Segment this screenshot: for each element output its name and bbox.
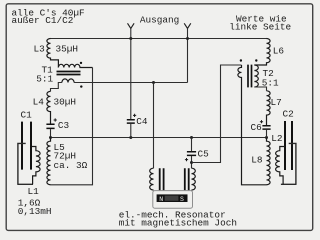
svg-text:mit magnetischem Joch: mit magnetischem Joch <box>119 218 237 229</box>
C4 polarity plus <box>133 114 136 117</box>
node junction right arrow <box>186 37 189 40</box>
svg-text:C6: C6 <box>251 122 263 133</box>
svg-text:L1: L1 <box>28 186 40 197</box>
transformer T1 primary winding <box>58 64 92 67</box>
capacitor C2 plates <box>285 121 292 170</box>
svg-text:L3: L3 <box>34 43 46 54</box>
svg-text:C4: C4 <box>136 116 148 127</box>
C3 polarity plus <box>54 118 57 121</box>
svg-text:5:1: 5:1 <box>36 74 53 85</box>
transducer L2 yoke outline <box>281 143 297 184</box>
inductor L7 <box>267 91 271 126</box>
capacitor C6 <box>262 126 270 129</box>
wire C5 bottom to T2 left winding <box>192 65 242 163</box>
transformer T2 core <box>248 65 252 88</box>
svg-text:0,13mH: 0,13mH <box>18 206 52 217</box>
output terminal arrow left <box>128 23 135 28</box>
svg-text:linke Seite: linke Seite <box>229 22 291 33</box>
wire arrow right down to T1 bus <box>187 28 189 82</box>
wire T1 secondary bus to right arrow <box>74 82 187 84</box>
output terminal arrow right <box>184 23 191 28</box>
svg-text:L7: L7 <box>271 97 282 108</box>
node junction on T1 bus <box>152 81 155 84</box>
node junction C5 top <box>190 136 193 139</box>
svg-text:L6: L6 <box>273 45 285 56</box>
inductor L5 <box>47 138 51 185</box>
svg-text:L8: L8 <box>251 154 263 165</box>
transformer T1 core <box>57 72 81 75</box>
inductor L6 <box>254 39 270 66</box>
transducer L1 coil <box>32 147 40 185</box>
transformer T2 right winding <box>254 65 258 87</box>
transducer L1 yoke outline <box>17 143 33 184</box>
resonator left core <box>160 168 164 190</box>
node junction C6 bottom <box>265 136 268 139</box>
capacitor C3 <box>46 124 54 128</box>
inductor L8 <box>267 138 271 185</box>
capacitor C5 <box>187 152 196 156</box>
transducer L2 coil <box>276 147 285 185</box>
svg-text:C3: C3 <box>58 120 70 131</box>
svg-text:S: S <box>180 196 184 203</box>
node junction C3/L5 <box>49 136 52 139</box>
note: el.-mech. Resonator mit magnetischem Joch <box>119 209 237 228</box>
svg-text:außer C1/C2: außer C1/C2 <box>12 15 74 26</box>
transformer T1 secondary winding <box>62 79 74 83</box>
transformer T2 left winding <box>238 65 267 185</box>
svg-text:C2: C2 <box>283 108 294 119</box>
capacitor C4 <box>127 120 135 123</box>
svg-text:ca. 3Ω: ca. 3Ω <box>54 160 88 171</box>
node junction C4 bottom <box>129 136 132 139</box>
C6 polarity plus <box>260 120 263 123</box>
wire T1 primary right lead down and along bottom to L5 <box>51 68 93 185</box>
T1 phase dot top <box>80 62 82 64</box>
wire mid bus <box>51 137 267 139</box>
resonator right coil <box>192 168 196 190</box>
svg-text:30µH: 30µH <box>54 97 77 108</box>
magnet bar <box>157 194 188 202</box>
note: Werte wie linke Seite <box>229 14 291 33</box>
resonator right core <box>185 168 189 190</box>
node junction C5 bottom <box>190 161 193 164</box>
svg-text:C1: C1 <box>21 110 33 121</box>
resonator left coil <box>150 168 154 190</box>
wire top bus <box>51 38 267 40</box>
svg-text:N: N <box>159 196 163 203</box>
resonator enclosure <box>153 191 193 209</box>
svg-text:C5: C5 <box>198 148 210 159</box>
C5 polarity plus <box>185 158 188 161</box>
T2 phase dot left <box>240 59 242 61</box>
svg-text:Ausgang: Ausgang <box>140 14 179 25</box>
wire T1 secondary left lead to L4 <box>51 83 62 92</box>
node junction left arrow <box>129 37 132 40</box>
T1 phase dot bottom <box>80 85 82 87</box>
wire arrow left down to bus <box>130 28 132 38</box>
note: alle C's 40µF / außer C1/C2 <box>12 7 85 26</box>
inductor L4 <box>47 91 51 123</box>
capacitor C1 plates <box>22 122 31 170</box>
T2 phase dot right <box>255 59 257 61</box>
wire T2 right winding bottom to L7 <box>254 87 266 91</box>
inductor L3 <box>47 39 59 68</box>
wire down to resonator left coil <box>153 83 155 169</box>
svg-text:L2: L2 <box>271 133 282 144</box>
svg-text:35µH: 35µH <box>56 43 79 54</box>
svg-text:L4: L4 <box>33 97 45 108</box>
